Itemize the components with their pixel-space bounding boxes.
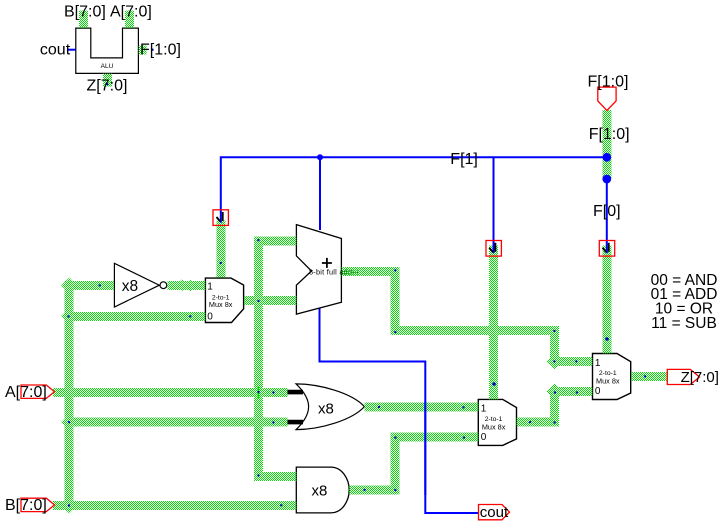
svg-text:B[7:0]: B[7:0] — [5, 497, 47, 514]
wire adder cout vertical redrawn over buses — [424, 402, 426, 495]
svg-text:x8: x8 — [122, 278, 138, 295]
node dot at mux3-in0 corner — [554, 391, 556, 393]
junction mini-diamond on inverter output bus (182,285) — [176, 279, 188, 291]
node dot at and-out corner — [394, 489, 396, 491]
junction bulge at vertical trunk/A-bus cross (258,392) — [252, 385, 266, 399]
svg-text:F[1:0]: F[1:0] — [589, 126, 630, 143]
node dot at mux2-out corner — [553, 421, 555, 423]
node dot on mux2-in0 bus — [463, 436, 465, 438]
tap box T1 (mux1 select) — [213, 210, 228, 226]
port Z[7:0] — [667, 369, 719, 386]
node dot at adder-in1 corner — [257, 239, 259, 241]
svg-text:11 = SUB: 11 = SUB — [651, 315, 717, 332]
bus H2 to mux1 in0 — [65, 312, 206, 321]
node dot on mux1 select bus — [220, 262, 222, 264]
bus H4 to or-gate in2 — [65, 418, 288, 427]
bus entry solid stripe at (258,392) — [258, 387, 260, 399]
bus mux2 select vertical — [489, 246, 498, 400]
svg-text:0: 0 — [207, 311, 213, 322]
mux U5 (right 2-to-1 Mux 8x) — [593, 354, 631, 400]
bus H10 adder out right — [391, 326, 559, 335]
mux U4 (middle 2-to-1 Mux 8x) — [478, 399, 516, 445]
svg-text:Mux 8x: Mux 8x — [209, 300, 233, 309]
mux U3 (left 2-to-1 Mux 8x) — [205, 278, 243, 322]
node dot on inverter input bus — [99, 284, 101, 286]
ALU symbol U-block — [76, 28, 139, 73]
svg-text:A[7:0]: A[7:0] — [5, 384, 47, 401]
junction dot trunk/mux1-in0 bus — [67, 315, 69, 317]
bus H6 inverter out to mux1 — [168, 281, 206, 290]
bus H12 or out to mux2 in1 — [364, 403, 478, 412]
tap box T2 (mux2 select) — [486, 240, 501, 256]
port B[7:0] — [5, 497, 55, 514]
port F[1:0] top — [588, 74, 629, 111]
svg-text:ALU: ALU — [101, 63, 114, 70]
inverter x8 — [114, 263, 166, 307]
junction diamond at trunk/B-bus (69,505) — [61, 498, 77, 514]
bus H16 to mux3 in0 — [550, 387, 593, 396]
junction dot trunk/B bus — [68, 504, 70, 506]
bus mux3 select vertical — [602, 246, 611, 354]
junction bulge at vertical trunk/or-in2 cross (258,422) — [252, 415, 266, 429]
bus stub A on ALU symbol — [125, 11, 134, 29]
svg-text:cout: cout — [40, 42, 71, 59]
bus H and-gate top input — [254, 472, 296, 481]
port cout — [479, 504, 510, 521]
svg-text:x8: x8 — [318, 401, 334, 418]
node dot at adder-out corner (554,331) — [553, 330, 555, 332]
node dot on and-out bus — [363, 489, 365, 491]
bus H1 to inverter — [65, 281, 115, 290]
svg-text:Mux 8x: Mux 8x — [482, 423, 506, 432]
svg-text:F[1]: F[1] — [450, 151, 478, 168]
svg-text:cout: cout — [480, 504, 509, 521]
bus H3 A to or-gate — [53, 388, 288, 397]
svg-text:F[1:0]: F[1:0] — [588, 74, 629, 91]
svg-text:x8: x8 — [312, 483, 328, 500]
bus H14 and out — [349, 485, 399, 494]
node dot on or-in2 bus near or-gate — [272, 421, 274, 423]
bus V8 F port down — [602, 110, 611, 179]
junction diamond at trunk/or-in2 bus (69,422) — [61, 414, 77, 430]
node F[1] tap on bus — [602, 153, 611, 162]
node dot on or-out bus — [462, 406, 464, 408]
junction mini-diamond on inverter output bus (190,285) — [185, 279, 197, 291]
node junction at (320,157) — [317, 154, 323, 160]
svg-text:1: 1 — [207, 282, 213, 293]
node dot on ALU symbol F stub — [151, 49, 153, 51]
and-gate x8 — [296, 467, 349, 513]
adder U2 — [296, 225, 341, 315]
svg-text:F[0]: F[0] — [593, 203, 621, 220]
node dot on B bus — [280, 504, 282, 506]
junction dot mux1-out/vertical trunk — [257, 300, 259, 302]
node dot on mux2 select bus — [492, 382, 496, 386]
svg-text:F[1:0]: F[1:0] — [140, 42, 181, 59]
bus H11 into mux3 in1 — [550, 357, 593, 366]
junction dot trunk/A bus cross — [257, 391, 259, 393]
node dot on mux3 select bus — [605, 337, 609, 341]
node dot on mux3-in1 bus — [575, 360, 577, 362]
wire F[1] to mux2 select tap — [493, 157, 495, 240]
or-gate x8 — [287, 384, 364, 430]
svg-text:A[7:0]: A[7:0] — [110, 4, 152, 21]
wire adder cout to cout port — [320, 308, 479, 514]
svg-text:1: 1 — [481, 404, 487, 415]
bus V7 mux2 out up — [550, 387, 559, 427]
bus stub B on ALU symbol — [79, 11, 88, 29]
node dot on A bus near or-gate — [272, 391, 274, 393]
node dot at mux3-in1 corner — [553, 360, 555, 362]
bus stub F on ALU symbol — [138, 46, 146, 55]
wire F[1] horizontal — [221, 157, 607, 209]
junction diamond at trunk/A-bus (69,392) — [61, 384, 77, 400]
adder plus sign — [322, 258, 332, 268]
svg-text:Z[7:0]: Z[7:0] — [681, 369, 719, 386]
bus V3 trunk — [254, 237, 263, 477]
bus H15 mux2 out — [517, 418, 559, 427]
node dot at mux2-in0 corner — [394, 436, 396, 438]
bus V1 left trunk — [65, 281, 74, 510]
junction diamond at mux3-in0 corner (554,392) — [546, 384, 562, 400]
node dot on mux3-in0 bus — [576, 391, 578, 393]
bus H7 to adder in1 — [254, 237, 296, 246]
svg-text:Z[7:0]: Z[7:0] — [87, 78, 128, 95]
bus stub Z on ALU symbol — [103, 73, 112, 86]
wire F[1] to adder cin — [319, 157, 321, 230]
node dot on mux2-out bus — [529, 421, 531, 423]
tap box T3 (mux3 select) — [599, 240, 614, 256]
svg-text:Mux 8x: Mux 8x — [596, 377, 620, 386]
node F[0] tap on bus — [602, 175, 611, 184]
node dot at and-in1 corner — [257, 474, 259, 476]
svg-text:0: 0 — [595, 386, 601, 397]
node dot at adder-out corner (395,270) — [394, 269, 396, 271]
node dot at adder-out corner (395,332) — [394, 331, 396, 333]
node dot on Z bus — [644, 375, 646, 377]
small blue node dots on buses — [67, 239, 646, 507]
svg-text:1: 1 — [595, 358, 601, 369]
legend text — [651, 272, 718, 332]
bus V6 and out up — [391, 433, 400, 495]
port A[7:0] — [5, 384, 55, 401]
bus H17 mux3 out to Z — [631, 372, 668, 381]
svg-text:B[7:0]: B[7:0] — [64, 4, 106, 21]
junction diamond at trunk/mux1-in0 (69,316) — [61, 308, 77, 324]
junction diamond at mux3-in1 corner (554,361) — [546, 353, 562, 369]
junction diamond at B-trunk corner (69,285) — [61, 278, 77, 294]
svg-text:0: 0 — [481, 432, 487, 443]
bus V4 adder out down — [391, 267, 400, 335]
wire cout stub on ALU symbol — [67, 49, 76, 51]
bus V5 down to mux3 in1 — [550, 326, 559, 366]
wire F[0] to mux3 select tap — [606, 179, 608, 240]
bus H9 adder out — [341, 267, 399, 276]
bus H13 to mux2 in0 — [391, 433, 479, 442]
node dot on ALU symbol Z stub — [106, 83, 108, 85]
bus H5 B to and-gate — [53, 501, 296, 510]
bus V2 mux1 select — [216, 221, 225, 278]
junction dot trunk/or-in2 bus — [68, 421, 70, 423]
bus H8 mux1 out to adder in2 — [244, 296, 296, 305]
node dot on or-out bus near gate — [378, 406, 380, 408]
node dot on mux1-in0 bus — [189, 315, 191, 317]
